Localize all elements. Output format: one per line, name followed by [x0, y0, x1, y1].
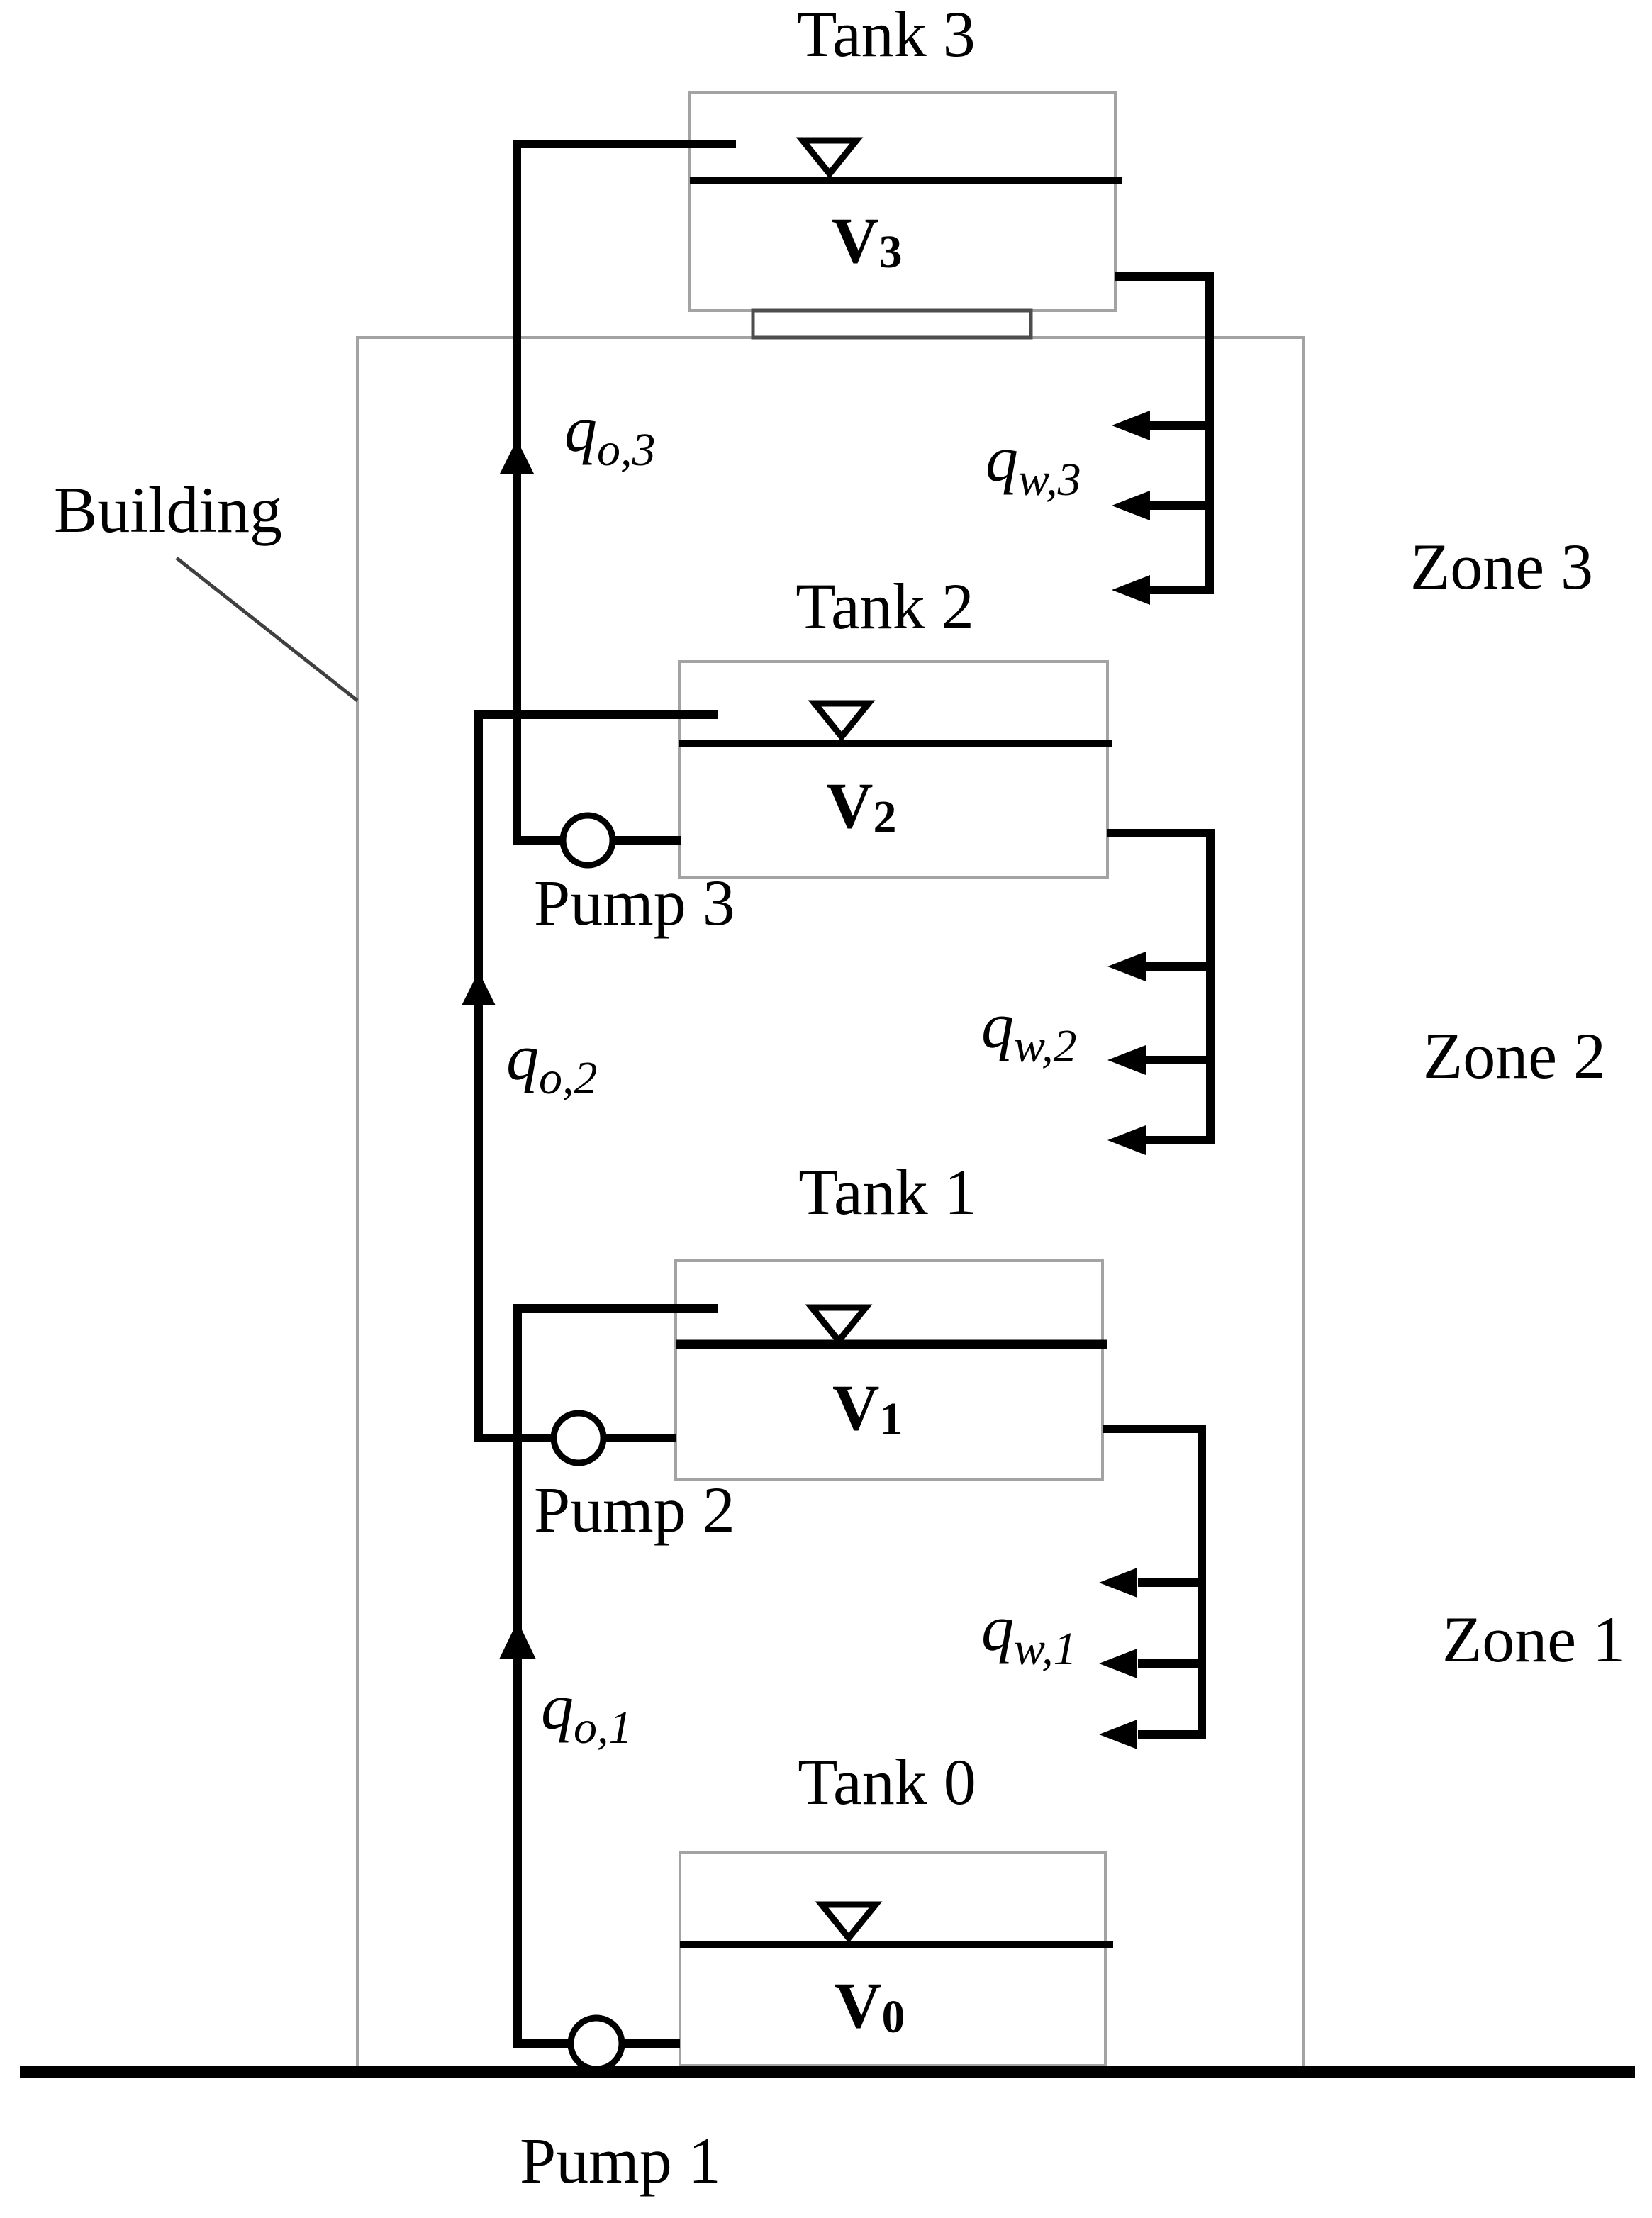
svg-text:Zone 1: Zone 1	[1442, 1603, 1625, 1676]
svg-text:Tank 2: Tank 2	[796, 570, 974, 642]
svg-text:Pump 1: Pump 1	[520, 2124, 721, 2197]
svg-text:V1: V1	[832, 1371, 903, 1445]
svg-text:Zone 2: Zone 2	[1423, 1020, 1606, 1092]
svg-text:Tank 3: Tank 3	[797, 0, 976, 70]
svg-text:Building: Building	[54, 474, 282, 546]
svg-text:Zone 3: Zone 3	[1410, 530, 1593, 603]
svg-text:Pump 2: Pump 2	[534, 1473, 735, 1546]
svg-text:qw,3: qw,3	[986, 423, 1081, 506]
svg-text:Pump 3: Pump 3	[534, 866, 735, 939]
svg-text:Tank 0: Tank 0	[798, 1746, 976, 1818]
svg-text:Tank 1: Tank 1	[798, 1156, 977, 1228]
svg-text:V0: V0	[835, 1969, 905, 2043]
svg-text:qo,2: qo,2	[506, 1021, 598, 1104]
svg-text:qw,2: qw,2	[981, 989, 1077, 1072]
svg-text:qw,1: qw,1	[981, 1592, 1077, 1675]
svg-text:qo,1: qo,1	[541, 1671, 632, 1754]
svg-text:qo,3: qo,3	[564, 393, 656, 476]
svg-text:V2: V2	[826, 769, 896, 843]
svg-text:V3: V3	[832, 204, 902, 278]
